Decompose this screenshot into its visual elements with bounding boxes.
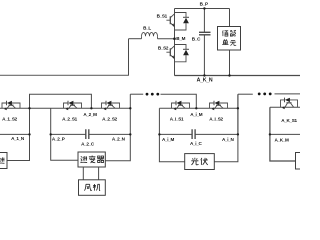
text 光伏 (PV box) xyxy=(191,158,207,165)
junction: cell 1 N bottom corner xyxy=(28,133,30,135)
svg-text:B_M: B_M xyxy=(176,36,185,41)
box: right partial unit (clipped at image edge) xyxy=(296,153,305,170)
svg-text:A_1_N: A_1_N xyxy=(11,136,25,141)
node A_i_M junction dot xyxy=(195,107,197,109)
node A_2_M junction dot xyxy=(90,107,92,109)
junction: A_K_M bottom corner xyxy=(269,133,271,135)
node B_P junction dot xyxy=(203,7,205,9)
junction: storage unit to bottom bus xyxy=(228,74,230,76)
wire: left bottom bus segment xyxy=(0,74,129,76)
wire: raised link from junction A_1_N/J1 to node A_2_M xyxy=(30,94,92,108)
wire: inductor to node B_M xyxy=(158,38,175,40)
wire: group i N drop to PV box xyxy=(214,134,238,161)
continuation dots (ellipsis) between group i and last cell xyxy=(258,93,261,96)
wire: group i bottom rail xyxy=(159,133,238,135)
wire: phase-leg vertical (B_S1/B_S2 chain) xyxy=(174,9,176,76)
svg-text:A_2_P: A_2_P xyxy=(52,136,65,141)
svg-text:B_L: B_L xyxy=(143,25,151,30)
svg-text:A_i_C: A_i_C xyxy=(190,141,203,146)
junction: B_C to bottom bus xyxy=(203,74,205,76)
junction: A_i_M bottom corner xyxy=(158,133,160,135)
svg-text:A_K_N: A_K_N xyxy=(197,78,213,84)
box: storage unit 储能单元 xyxy=(218,27,241,51)
transistor B_S2 (IGBT) xyxy=(166,46,174,59)
box: PV unit 光伏 xyxy=(185,154,215,170)
wire: group i left edge (A_i_M side) xyxy=(158,108,160,134)
wire: raised link resuming after dots, down to node A_i_M xyxy=(161,94,197,108)
wire: double link inverter to wind turbine xyxy=(83,167,98,180)
wire: group i top wire xyxy=(159,107,238,109)
wire: cell chain top wire (cell 1 through cell 2) xyxy=(0,107,130,109)
svg-text:A_K_S1: A_K_S1 xyxy=(281,118,297,123)
svg-text:A_2_S2: A_2_S2 xyxy=(102,117,118,122)
wire: top rail to storage unit xyxy=(229,9,231,27)
junction J3 (A_i_N top corner) xyxy=(237,107,239,109)
capacitor A_i_C xyxy=(192,129,195,139)
wire: cell 2 bottom rail (A_2_P to A_2_N) xyxy=(51,133,131,135)
wire: last cell top wire xyxy=(270,106,300,108)
text 风机 (wind turbine box) xyxy=(84,184,100,191)
svg-text:B_S1: B_S1 xyxy=(157,14,168,19)
junction: A_i_N bottom corner xyxy=(237,133,239,135)
wire: group i right edge riser (A_i_N side) xyxy=(237,94,239,134)
transistor A_1_S2 xyxy=(2,101,20,111)
node B_M junction dot xyxy=(173,37,176,40)
wire: raised link after dots, exiting right edge xyxy=(275,93,301,95)
junction J1 (A_1_N top corner) xyxy=(28,107,30,109)
junction J2 (A_2_N top corner) xyxy=(129,107,131,109)
capacitor B_C (dc-link) xyxy=(199,9,211,76)
wire: top rail B_P xyxy=(175,8,230,10)
inductor B_L xyxy=(142,32,158,38)
text 单元 (storage box line 2) xyxy=(222,39,236,45)
wire: cell 2 left edge (A_2_P side) xyxy=(50,108,52,134)
wire: cell 2 P drop to inverter left xyxy=(51,134,78,160)
diode: antiparallel diode of B_S2 xyxy=(175,45,190,62)
continuation dots (ellipsis) between cell 2 and group i xyxy=(146,93,149,96)
wire: raised link J3 toward last cell (before dots) xyxy=(238,93,253,95)
capacitor A_2_C xyxy=(86,129,89,139)
wire: last cell bottom rail xyxy=(270,133,300,135)
wire: raised link J2 toward group i (left part, before dots) xyxy=(130,93,143,95)
transistor A_2_S1 xyxy=(64,101,82,111)
wire: inductor input segment xyxy=(129,38,142,40)
wire: cell 2 N drop to inverter right xyxy=(105,134,130,160)
diode: antiparallel diode of B_S1 xyxy=(175,13,190,31)
svg-text:A_i_S2: A_i_S2 xyxy=(209,117,223,122)
box: inverter 逆变器 xyxy=(78,152,105,167)
text 逆变器 (inverter box) xyxy=(80,156,103,163)
svg-text:A_i_N: A_i_N xyxy=(222,137,235,142)
text 逆 (left partial box, clipped) xyxy=(0,157,5,163)
wire: riser from left bus up to inductor input xyxy=(128,39,130,76)
transistor A_2_S2 xyxy=(102,101,120,111)
svg-text:A_1_S2: A_1_S2 xyxy=(2,117,18,122)
wire: last cell left edge down to right partial box xyxy=(270,107,296,161)
box: wind turbine 风机 xyxy=(79,180,106,196)
svg-text:A_i_M: A_i_M xyxy=(190,112,203,117)
svg-text:A_i_S1: A_i_S1 xyxy=(170,117,184,122)
transistor A_i_S2 xyxy=(210,101,228,111)
svg-text:A_2_N: A_2_N xyxy=(112,136,126,141)
svg-text:A_2_S1: A_2_S1 xyxy=(62,117,78,122)
svg-text:A_2_M: A_2_M xyxy=(83,112,97,117)
svg-text:A_i_M: A_i_M xyxy=(162,137,175,142)
svg-text:A_K_M: A_K_M xyxy=(274,137,289,142)
wire: storage unit to bottom bus xyxy=(229,50,231,76)
transistor A_i_S1 xyxy=(172,101,190,111)
wire: cell 1 N vertical down to left inverter xyxy=(7,108,30,160)
box: left partial inverter (clipped at image edge) xyxy=(0,153,7,169)
junction: A_2_P bottom corner xyxy=(50,133,52,135)
wire: cell 2 right edge riser (A_2_N side) xyxy=(129,94,131,134)
wire: cell 1 bottom rail A_1_N xyxy=(0,133,30,135)
junction: A_2_N bottom corner xyxy=(129,133,131,135)
svg-text:B_S2: B_S2 xyxy=(158,46,169,51)
svg-text:A_2_C: A_2_C xyxy=(81,141,95,146)
transistor A_K_S1 (taller variant) xyxy=(281,98,298,110)
svg-text:B_C: B_C xyxy=(192,37,201,42)
wire: group i P drop to PV box xyxy=(159,134,184,161)
text 储能 (storage box line 1) xyxy=(222,30,235,36)
transistor B_S1 (IGBT) xyxy=(166,14,174,27)
wire: bottom bus A_K_N right segment xyxy=(175,75,301,77)
svg-text:B_P: B_P xyxy=(200,1,208,6)
